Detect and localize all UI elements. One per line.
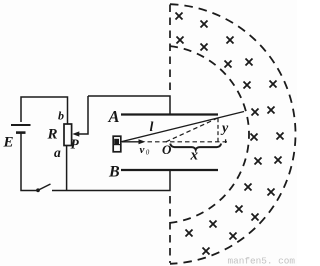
svg-text:v: v xyxy=(140,144,145,156)
svg-text:A: A xyxy=(108,107,120,126)
svg-text:l: l xyxy=(150,120,154,135)
svg-text:x: x xyxy=(190,147,199,163)
svg-text:manfen5. com: manfen5. com xyxy=(228,256,296,266)
svg-text:R: R xyxy=(47,127,58,143)
svg-text:a: a xyxy=(54,145,61,160)
svg-text:P: P xyxy=(71,137,80,152)
svg-text:E: E xyxy=(3,135,14,151)
svg-text:O: O xyxy=(162,142,172,157)
svg-text:B: B xyxy=(108,164,120,181)
svg-text:b: b xyxy=(58,109,64,123)
svg-text:y: y xyxy=(220,121,229,136)
svg-text:0: 0 xyxy=(146,149,150,157)
